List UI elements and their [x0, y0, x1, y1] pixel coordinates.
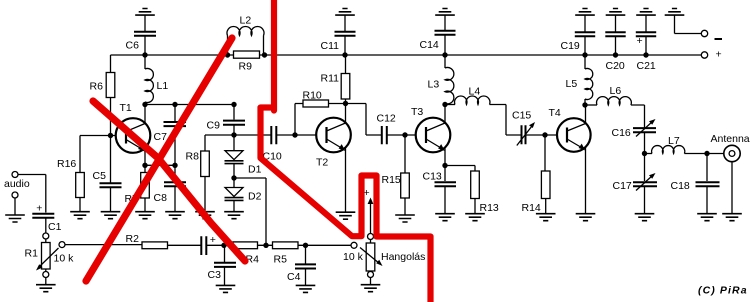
- svg-text:C4: C4: [287, 271, 301, 283]
- svg-text:C13: C13: [423, 171, 442, 183]
- svg-text:C7: C7: [154, 131, 168, 143]
- svg-text:C18: C18: [671, 180, 690, 192]
- svg-text:C15: C15: [512, 110, 531, 122]
- svg-text:C3: C3: [208, 269, 222, 281]
- svg-text:T1: T1: [120, 102, 132, 114]
- svg-text:+: +: [637, 35, 643, 47]
- svg-text:L3: L3: [428, 79, 440, 91]
- svg-text:Hangolás: Hangolás: [381, 251, 425, 263]
- svg-text:R14: R14: [522, 202, 541, 214]
- svg-text:T2: T2: [316, 157, 328, 169]
- svg-text:10 k: 10 k: [343, 251, 364, 263]
- svg-text:D2: D2: [248, 191, 262, 203]
- svg-text:C8: C8: [154, 192, 168, 204]
- svg-text:R10: R10: [303, 90, 322, 102]
- svg-text:audio: audio: [4, 178, 30, 190]
- svg-text:C5: C5: [93, 170, 107, 182]
- svg-text:C21: C21: [637, 60, 656, 72]
- svg-text:C1: C1: [48, 221, 62, 233]
- svg-text:D1: D1: [248, 164, 262, 176]
- svg-text:L7: L7: [668, 135, 680, 147]
- svg-text:R13: R13: [480, 202, 499, 214]
- svg-text:C11: C11: [321, 40, 340, 52]
- svg-text:T4: T4: [549, 107, 561, 119]
- svg-text:Antenna: Antenna: [711, 133, 750, 145]
- svg-text:R8: R8: [186, 151, 200, 163]
- svg-text:L4: L4: [469, 86, 481, 98]
- svg-text:C17: C17: [613, 180, 632, 192]
- svg-text:R11: R11: [321, 73, 340, 85]
- svg-text:L5: L5: [566, 78, 578, 90]
- svg-text:+: +: [716, 49, 722, 61]
- svg-text:+: +: [36, 203, 42, 215]
- svg-text:R1: R1: [25, 248, 39, 260]
- svg-text:R2: R2: [126, 233, 140, 245]
- svg-text:C6: C6: [126, 40, 140, 52]
- svg-text:C14: C14: [420, 39, 439, 51]
- svg-text:L1: L1: [157, 80, 169, 92]
- svg-text:R16: R16: [57, 158, 76, 170]
- svg-text:R6: R6: [90, 81, 104, 93]
- svg-text:C20: C20: [606, 60, 625, 72]
- svg-text:R5: R5: [274, 254, 288, 266]
- svg-text:C9: C9: [207, 120, 221, 132]
- svg-text:L6: L6: [610, 85, 622, 97]
- svg-text:R15: R15: [382, 174, 401, 186]
- svg-text:C16: C16: [612, 127, 631, 139]
- svg-text:C12: C12: [377, 113, 396, 125]
- svg-text:R9: R9: [239, 61, 253, 73]
- svg-text:10 k: 10 k: [54, 253, 75, 265]
- svg-text:C19: C19: [561, 40, 580, 52]
- svg-text:T3: T3: [411, 106, 423, 118]
- svg-text:(C) PiRa: (C) PiRa: [698, 285, 748, 297]
- svg-text:+: +: [210, 234, 216, 246]
- svg-text:L2: L2: [240, 15, 252, 27]
